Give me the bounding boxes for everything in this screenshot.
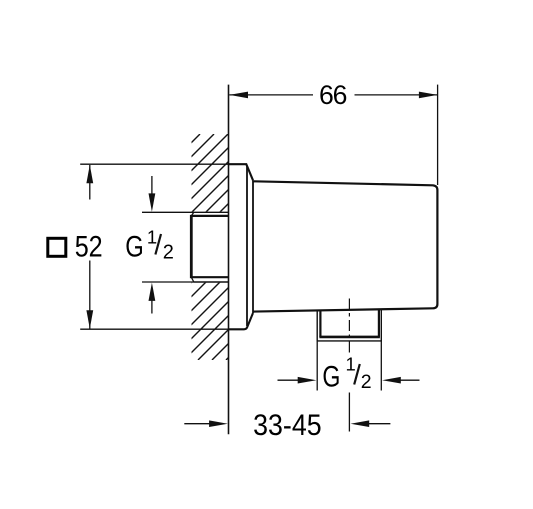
dimension 33-45: right extension line (centerline extended) <box>348 393 350 432</box>
svg-text:2: 2 <box>361 371 372 393</box>
outlet thread root left <box>319 310 321 337</box>
svg-text:33-45: 33-45 <box>253 409 322 442</box>
wall thread end face <box>190 215 193 278</box>
svg-text:1: 1 <box>147 227 157 248</box>
outlet thread root right <box>378 309 380 337</box>
wall thread chamfer bottom <box>191 277 194 282</box>
body cone outline <box>253 181 437 311</box>
wall thread chamfer top <box>191 212 194 216</box>
svg-text:G: G <box>125 230 144 263</box>
outlet thread crest bottom <box>317 340 382 342</box>
wall thread G1/2 crest bottom line <box>194 281 229 283</box>
svg-text:2: 2 <box>163 242 174 264</box>
dimension 52: dimension line <box>89 165 91 200</box>
dimension 66: right arrowhead <box>419 92 438 99</box>
wall thread G1/2 root top line <box>191 215 228 217</box>
bottom G1/2: left extension line <box>316 341 318 391</box>
dimension 52: bottom extension line <box>80 328 229 330</box>
left G1/2: upper arrow <box>151 176 153 195</box>
svg-text:66: 66 <box>319 80 348 110</box>
flange outline <box>229 164 254 329</box>
outlet thread crest left <box>316 310 318 341</box>
outlet centerline <box>348 299 350 357</box>
outlet thread crest right <box>380 309 382 341</box>
wall thread G1/2 root bottom line <box>191 276 228 278</box>
dimension 52: bottom arrowhead <box>86 310 93 328</box>
cone base edge <box>252 180 254 313</box>
svg-text:1: 1 <box>345 354 355 375</box>
bottom G1/2: right extension line <box>380 341 382 391</box>
wall thread G1/2 crest top line <box>194 211 229 213</box>
svg-text:52: 52 <box>75 231 103 264</box>
svg-text:G: G <box>322 360 340 393</box>
wall front face line (also extension line for 66 and 33-45) <box>228 85 230 435</box>
wall hatching <box>0 134 452 360</box>
dimension 33-45: left arrow <box>184 423 210 425</box>
dimension 52: top arrowhead <box>86 165 93 183</box>
left G1/2: bottom extension line <box>142 281 194 283</box>
outlet thread end face <box>319 336 380 339</box>
dimension 66: dimension line <box>229 94 313 96</box>
dimension 52: top extension line <box>80 163 229 165</box>
dimension 66: left arrowhead <box>229 92 248 99</box>
dimension 66: right extension line <box>437 85 439 185</box>
left G1/2: lower arrow <box>151 299 153 314</box>
bottom G1/2: fraction slash <box>354 364 360 385</box>
left G1/2: top extension line <box>142 211 194 213</box>
bottom G1/2: left arrow <box>278 379 300 381</box>
flange front face <box>246 167 248 327</box>
bottom G1/2: right arrow <box>400 379 420 381</box>
left G1/2: fraction slash <box>155 234 161 255</box>
dimension 33-45: right arrow <box>368 423 390 425</box>
dimension 52: square symbol <box>48 238 66 256</box>
